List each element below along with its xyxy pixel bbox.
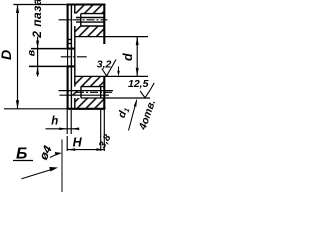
svg-text:2 паза: 2 паза [30, 0, 44, 39]
D arrow top [16, 5, 19, 14]
slot top centerline [59, 19, 108, 21]
bore bottom edge ext left [29, 65, 66, 67]
dimension D [4, 5, 66, 109]
hole d1 centerline [76, 91, 114, 93]
svg-text:h: h [51, 115, 58, 127]
v arrow top [36, 41, 39, 49]
recess top edge + ext [75, 36, 148, 38]
hatching top ring [75, 4, 105, 36]
d1 hole lower edge + ext [60, 94, 110, 96]
d1 hole upper edge + ext [59, 90, 114, 92]
H dim line [67, 149, 104, 151]
roughness check 3,2 [102, 60, 116, 76]
v arrow bottom [36, 66, 39, 74]
axis centerline [61, 56, 89, 58]
recess floor [74, 4, 76, 13]
centerlines [59, 20, 114, 93]
groove 3,8 wall [100, 87, 102, 98]
d arrow bottom [136, 68, 139, 77]
slot bottom: floor [80, 87, 82, 98]
h arrow right [71, 128, 79, 131]
svg-text:в: в [25, 49, 37, 56]
H ext lines [66, 136, 68, 151]
right face lower [103, 76, 105, 109]
left face upper [67, 4, 69, 48]
d1 leader arrow [134, 99, 137, 107]
fi4 leader line [50, 154, 57, 157]
B arrow head [49, 167, 58, 172]
bore top edge at part [66, 48, 74, 50]
svg-text:H: H [73, 135, 83, 149]
slot top: floor [80, 14, 82, 26]
roughness check 12,5 [140, 83, 154, 98]
H arrow right [96, 148, 104, 151]
slot bottom: upper edge [81, 86, 104, 88]
h ext lines [66, 110, 68, 134]
B view arrow [22, 170, 52, 179]
dimension h [46, 110, 78, 134]
hatching bottom ring [67, 76, 104, 108]
left face lower [67, 66, 69, 109]
left face across bore (thin) [67, 49, 69, 67]
h dim line [46, 128, 78, 130]
fi4 leader arrow [55, 152, 62, 156]
D dim line [17, 5, 19, 109]
top edge [66, 3, 105, 5]
slot top: upper edge [81, 13, 105, 15]
small hole fi4 lower [67, 43, 71, 45]
extra down arrow on recess ext [118, 67, 120, 72]
small hole fi4 upper [67, 39, 71, 41]
dimension d [136, 37, 138, 77]
vertical line bottom (section trace) [61, 140, 63, 193]
part outline thick [66, 4, 105, 109]
hole d1 top slot lower edge [76, 21, 104, 23]
label d1 / 4otv with slanted leader [129, 100, 137, 130]
d arrow top [136, 37, 139, 46]
H arrow left [67, 148, 75, 151]
slot bottom: lower edge + ext right [81, 97, 150, 99]
recess bottom edge + ext [75, 75, 148, 77]
B underline [13, 160, 33, 162]
svg-text:d: d [121, 53, 135, 61]
D arrow bottom [16, 100, 19, 109]
D ext bottom [4, 108, 66, 110]
right face upper [103, 4, 105, 44]
D ext top [13, 4, 66, 6]
hole d1 top slot upper edge [76, 17, 104, 19]
bottom edge [66, 108, 105, 110]
down arrow tip [117, 71, 120, 77]
svg-text:3,2: 3,2 [97, 59, 112, 71]
dimension H [67, 110, 104, 151]
dimension v (bore) [37, 37, 39, 77]
slot top: lower edge [81, 25, 105, 27]
h arrow left [59, 128, 67, 131]
svg-text:12,5: 12,5 [128, 78, 149, 90]
svg-text:D: D [0, 50, 14, 60]
disc web line [70, 4, 72, 108]
bore bottom edge at part [66, 65, 74, 67]
